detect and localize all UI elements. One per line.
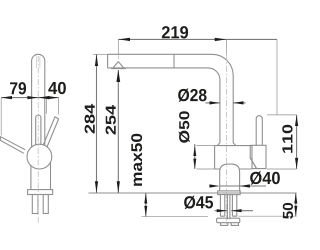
arrowheads o40 bbox=[209, 184, 219, 187]
dim max50 line bbox=[145, 193, 147, 216]
dim text 50 (rotated) bbox=[283, 203, 293, 219]
dim o28 tails bbox=[206, 102, 246, 104]
dim text o45 bbox=[184, 196, 213, 209]
right view: hoses bbox=[227, 195, 230, 220]
dim o40 line bbox=[220, 185, 266, 187]
right view: neck dome and sides bbox=[220, 164, 240, 191]
arrowheads o28 bbox=[210, 101, 220, 104]
left view: pull-out head inner lines bbox=[36, 57, 40, 69]
dim 284 extension line bbox=[93, 53, 108, 55]
dim o50 line bbox=[194, 144, 196, 169]
dim 110 line bbox=[296, 115, 298, 169]
dim o45 tails bbox=[215, 210, 254, 212]
left view: lever vertical position bbox=[36, 115, 41, 145]
right view: fixing studs bbox=[220, 195, 236, 217]
dim 219 line bbox=[118, 38, 277, 40]
arrowheads 50 bbox=[294, 193, 297, 204]
arrowheads max50 bbox=[144, 193, 147, 204]
right view: pipe centerline bbox=[225, 39, 227, 54]
dim text 40 bbox=[48, 82, 66, 94]
left view: lever tilted right position bbox=[43, 117, 58, 147]
right view: hose nut feet bbox=[221, 223, 239, 226]
right view: handle base bbox=[250, 145, 266, 168]
arrowheads o45 bbox=[217, 209, 227, 212]
dim text 254 (rotated) bbox=[106, 105, 116, 135]
arrowheads 219 bbox=[118, 38, 130, 41]
right view: handle base diagonal bbox=[250, 158, 256, 169]
right view: pipe flare chamfers bbox=[217, 143, 236, 146]
left view: neck cylinder bbox=[31, 163, 51, 190]
arrowheads 284 bbox=[95, 54, 98, 66]
left view: fixing studs bbox=[32, 195, 38, 214]
right view: aerator centerline bbox=[117, 39, 119, 54]
arrowheads o50 bbox=[193, 146, 196, 156]
dim 50 bottom extension bbox=[239, 215, 297, 217]
right view: base plate bbox=[218, 191, 241, 195]
left view: centerline bbox=[37, 56, 39, 223]
dim text o50 (rotated) bbox=[179, 111, 190, 143]
left view: spout tube side bbox=[32, 54, 45, 147]
dim 254 line bbox=[117, 70, 119, 193]
left view: lever tilted left position bbox=[0, 137, 25, 154]
right view: aerator cone bbox=[111, 62, 126, 69]
arrowheads 79/40 bbox=[1, 96, 12, 99]
right view: spout horizontal tube bbox=[108, 54, 234, 142]
left view: base plate bbox=[28, 190, 53, 195]
countertop line bbox=[89, 192, 297, 194]
right view: spout joint line bbox=[173, 54, 175, 68]
dim 79/40 line bbox=[1, 97, 58, 99]
dim 284 line bbox=[96, 54, 98, 193]
left view: mixer ball bbox=[27, 144, 52, 169]
arrowheads 110 bbox=[295, 115, 298, 126]
dim text max50 (rotated) bbox=[131, 134, 142, 186]
dim 50 line bbox=[295, 193, 297, 216]
dim text o28 bbox=[178, 89, 206, 102]
right view: bottom connector bar bbox=[217, 218, 240, 223]
dim 79/40 extension lines bbox=[1, 98, 58, 136]
dim 110 extensions bbox=[267, 115, 297, 169]
dim text 79 bbox=[10, 82, 26, 94]
dim text 110 (rotated) bbox=[282, 125, 292, 153]
dim o50 extensions bbox=[197, 146, 215, 169]
dim text o40 bbox=[250, 171, 280, 184]
dim max50 bottom extension bbox=[142, 216, 209, 218]
dim 219 right drop line bbox=[276, 39, 278, 115]
right view: body cylinder bbox=[215, 146, 252, 169]
dim text 284 (rotated) bbox=[85, 104, 95, 134]
right view: lever stick bbox=[256, 116, 262, 146]
dim text 219 bbox=[162, 26, 188, 38]
arrowheads 254 bbox=[116, 70, 120, 82]
